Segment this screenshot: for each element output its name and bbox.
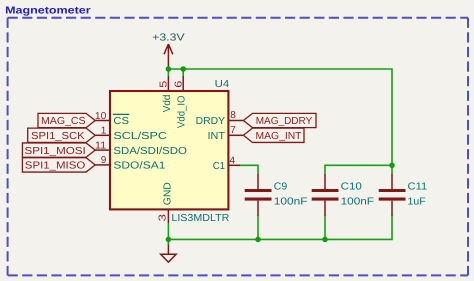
- svg-text:GND: GND: [163, 182, 174, 205]
- pin 9 SDO/SA1: [95, 155, 166, 171]
- svg-text:1uF: 1uF: [408, 197, 426, 208]
- svg-text:11: 11: [95, 140, 107, 151]
- svg-text:5: 5: [159, 80, 170, 88]
- svg-text:C1: C1: [213, 161, 226, 172]
- svg-text:Magnetometer: Magnetometer: [5, 6, 91, 17]
- svg-text:SPI1_SCK: SPI1_SCK: [31, 131, 85, 142]
- svg-text:4: 4: [230, 155, 236, 166]
- pin 5 Vdd: [159, 76, 173, 112]
- pin 10 CS: [95, 111, 129, 127]
- global label MAG_CS: [38, 113, 95, 127]
- svg-text:MAG_DDRY: MAG_DDRY: [256, 116, 313, 127]
- svg-text:8: 8: [230, 110, 236, 121]
- svg-text:1: 1: [101, 126, 107, 137]
- capacitor C9: [245, 174, 308, 216]
- global label MAG_DDRY: [243, 113, 316, 127]
- global label SPI1_MOSI: [22, 143, 95, 157]
- wire ground rail bottom: [168, 216, 392, 246]
- svg-text:MAG_INT: MAG_INT: [256, 131, 302, 142]
- pin 4 C1: [213, 155, 240, 172]
- svg-text:10: 10: [95, 111, 107, 122]
- svg-text:SDA/SDI/SDO: SDA/SDI/SDO: [113, 146, 187, 157]
- global label SPI1_MISO: [22, 158, 95, 172]
- svg-text:C11: C11: [408, 181, 428, 192]
- ground symbol: [161, 245, 177, 263]
- pin 11 SDA/SDI/SDO: [95, 140, 187, 156]
- svg-text:MAG_CS: MAG_CS: [41, 116, 86, 127]
- svg-text:SPI1_MISO: SPI1_MISO: [25, 161, 86, 172]
- wire C9 bottom: [257, 216, 259, 240]
- junction pin6 rail: [180, 66, 186, 72]
- wire C10 top to C11 junction: [325, 165, 392, 174]
- pin 6 Vdd_IO: [173, 76, 187, 128]
- wire +3.3V rail top: [168, 69, 392, 165]
- capacitor C11: [379, 174, 428, 216]
- pin 8 DRDY: [196, 110, 244, 127]
- wire C10 bottom: [324, 216, 326, 240]
- svg-text:100nF: 100nF: [341, 197, 374, 208]
- svg-text:SPI1_MOSI: SPI1_MOSI: [25, 146, 86, 157]
- svg-text:SDO/SA1: SDO/SA1: [113, 161, 165, 172]
- svg-text:6: 6: [173, 80, 184, 88]
- pin 7 INT: [208, 125, 244, 142]
- svg-text:9: 9: [101, 155, 107, 166]
- global label MAG_INT: [243, 128, 304, 142]
- junction C11 top: [389, 163, 395, 169]
- junction gnd rail: [166, 237, 172, 243]
- IC U4 LIS3MDLTR symbol body: [110, 79, 230, 224]
- svg-text:Vdd_IO: Vdd_IO: [177, 95, 188, 128]
- capacitor C10: [312, 174, 374, 216]
- global label SPI1_SCK: [28, 128, 96, 142]
- svg-text:U4: U4: [215, 79, 230, 90]
- wire C11 top lead: [391, 165, 393, 174]
- svg-text:SCL/SPC: SCL/SPC: [113, 131, 166, 142]
- junction C9 bottom: [255, 237, 261, 243]
- svg-text:INT: INT: [208, 131, 226, 142]
- pin 3 GND: [157, 182, 173, 223]
- wire pin5 pin6 drop: [168, 69, 183, 77]
- svg-text:CS: CS: [113, 116, 129, 127]
- svg-text:Vdd: Vdd: [162, 94, 173, 112]
- svg-text:C10: C10: [341, 181, 363, 192]
- svg-text:7: 7: [230, 125, 236, 136]
- svg-text:DRDY: DRDY: [196, 116, 225, 127]
- junction pin5 rail: [166, 66, 172, 72]
- junction C10 bottom: [322, 237, 328, 243]
- svg-text:100nF: 100nF: [274, 197, 308, 208]
- wire pin4 to C9 top: [237, 165, 258, 174]
- svg-text:3: 3: [157, 213, 168, 221]
- pin 1 SCL/SPC: [95, 126, 167, 142]
- svg-text:+3.3V: +3.3V: [152, 32, 185, 43]
- svg-text:LIS3MDLTR: LIS3MDLTR: [171, 213, 229, 224]
- power symbol +3.3V: [152, 32, 185, 68]
- svg-text:C9: C9: [274, 181, 288, 192]
